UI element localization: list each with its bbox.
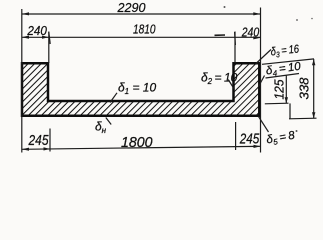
svg-text:240: 240: [27, 23, 48, 38]
tick row2 right inner: [234, 32, 237, 45]
extension line right inner top: [234, 32, 236, 64]
arrow bottom right end: [254, 145, 261, 148]
leader d4: [258, 76, 264, 88]
arrow 2290 right: [253, 12, 260, 15]
svg-text:δ2 = 10: δ2 = 10: [201, 71, 238, 87]
speck bottom right: [296, 130, 298, 132]
speck top right: [296, 19, 298, 21]
extension line left outer: [21, 9, 23, 153]
tick bottom right inner: [235, 122, 237, 150]
arrow bottom at left tick: [44, 147, 51, 150]
connector slab thickness right: [289, 103, 291, 118]
arrow row2 right end: [253, 36, 260, 39]
extension line left inner top: [48, 32, 50, 64]
tick bottom left inner: [49, 129, 51, 152]
speck right mid: [311, 18, 313, 20]
leader d1: [110, 93, 117, 103]
speck top middle: [224, 6, 226, 8]
arrow bottom left end: [22, 148, 29, 151]
tick 125 bottom: [265, 102, 289, 105]
extension line right outer: [260, 8, 262, 153]
arrow row2 left end: [22, 36, 29, 39]
svg-text:245: 245: [28, 132, 49, 149]
dimension line bottom 245/1800/245: [22, 146, 261, 149]
tick 338 top: [262, 59, 314, 64]
svg-text:2290: 2290: [117, 0, 147, 15]
svg-text:1810: 1810: [133, 22, 156, 37]
dimension line 240/1810/240: [22, 36, 261, 38]
dimension line 338: [313, 59, 315, 119]
dimension line 2290: [22, 13, 261, 15]
leader d3: [256, 50, 271, 64]
svg-text:δ1 = 10: δ1 = 10: [118, 81, 156, 97]
svg-text:240: 240: [241, 25, 260, 40]
arrow 2290 left: [22, 12, 29, 15]
leader d5: [259, 117, 269, 133]
dimension line 125: [285, 75, 287, 103]
arrow 125 bottom: [285, 97, 288, 103]
tick 125 top: [266, 74, 300, 79]
svg-text:125: 125: [272, 79, 287, 100]
svg-text:1800: 1800: [121, 134, 153, 151]
arrow row2 at left inner tick: [42, 36, 49, 39]
leader d2: [228, 80, 234, 90]
channel section hatched body: [22, 63, 259, 116]
arrow 338 bottom: [312, 112, 315, 118]
svg-text:338: 338: [297, 77, 312, 100]
svg-text:245: 245: [239, 131, 260, 148]
tick row2 left inner: [49, 32, 50, 44]
arrow 338 top: [312, 59, 315, 65]
leader dn: [106, 118, 111, 125]
tick 338 bottom: [289, 117, 317, 120]
ink dash artifact above row2 line: [215, 34, 226, 36]
